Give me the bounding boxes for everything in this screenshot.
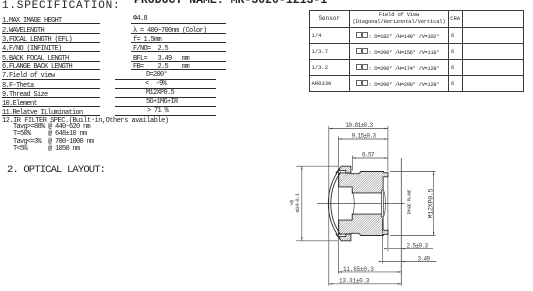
- svg-text:11.65±0.3: 11.65±0.3: [343, 266, 374, 273]
- svg-text:9.15±0.3: 9.15±0.3: [352, 133, 377, 140]
- svg-text:IMAGE PLANE: IMAGE PLANE: [406, 189, 412, 215]
- svg-text:ø14-0.1: ø14-0.1: [294, 192, 301, 212]
- svg-text:2.5±0.3: 2.5±0.3: [407, 243, 429, 250]
- svg-text:M12XP0.5: M12XP0.5: [427, 188, 434, 218]
- svg-text:6.57: 6.57: [362, 152, 375, 159]
- svg-text:10.81±0.3: 10.81±0.3: [346, 122, 374, 129]
- svg-text:3.49: 3.49: [418, 255, 431, 262]
- svg-text:13.31±0.3: 13.31±0.3: [339, 278, 370, 285]
